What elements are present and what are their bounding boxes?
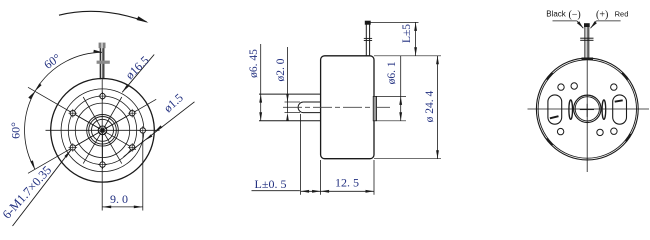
svg-text:Black: Black bbox=[546, 10, 567, 19]
thread callout 6-M1.7x0.35 bbox=[13, 150, 72, 226]
dimension L+-5 bbox=[370, 21, 418, 23]
front view vertical centerline bbox=[101, 48, 103, 211]
front view 6 mounting holes M1.7 bbox=[100, 93, 105, 98]
rear terminal bbox=[584, 27, 586, 58]
dimension L+-0.5 bbox=[300, 114, 302, 195]
front view inner step circle bbox=[75, 103, 129, 157]
rear brush spring arcs bbox=[569, 100, 573, 119]
rear view rim notches bbox=[622, 73, 628, 80]
polarity leader right bbox=[596, 20, 620, 22]
front view shaft circle bbox=[98, 126, 107, 135]
side view body outline bbox=[321, 56, 374, 159]
rear bearing boss bbox=[574, 95, 601, 122]
svg-text:L±0. 5: L±0. 5 bbox=[255, 177, 287, 191]
front view shaft washer bbox=[97, 61, 110, 64]
front view bolt circle bbox=[68, 96, 136, 164]
svg-text:ø2. 0: ø2. 0 bbox=[275, 58, 287, 81]
dimension d6.45 bbox=[260, 44, 262, 121]
svg-text:ø6. 45: ø6. 45 bbox=[248, 49, 260, 78]
front view horizontal centerline bbox=[46, 129, 160, 131]
front view shaft (top) bbox=[99, 48, 101, 79]
dimension d2.0 bbox=[287, 47, 289, 113]
front view boss rings bbox=[87, 115, 119, 147]
side view center axis bbox=[283, 106, 390, 108]
dimension d1.5 leader bbox=[124, 102, 195, 157]
front view circle d16.5 reference bbox=[61, 89, 144, 172]
rear small holes bbox=[558, 84, 564, 90]
side view shaft d2.0 bbox=[303, 101, 320, 103]
side view terminal bbox=[365, 25, 367, 56]
svg-text:9. 0: 9. 0 bbox=[110, 192, 128, 206]
rear view vertical centerline bbox=[586, 27, 588, 172]
svg-text:Red: Red bbox=[615, 9, 629, 18]
dimension d6.1 bbox=[377, 95, 406, 97]
rear view: end cap bbox=[528, 9, 650, 172]
rear vent slot right bbox=[613, 95, 627, 124]
60 degree dimension arcs bbox=[25, 52, 103, 169]
svg-text:12. 5: 12. 5 bbox=[335, 176, 359, 190]
rear vent slot left bbox=[548, 95, 562, 124]
brush in left slot bbox=[550, 116, 559, 118]
svg-text:L±5: L±5 bbox=[401, 24, 413, 43]
front view hole d1.5 at 9.0 offset bbox=[140, 128, 145, 133]
dimension 12.5 bbox=[373, 160, 375, 195]
front view outer body circle bbox=[51, 79, 155, 183]
dimension d16.5 leader bbox=[122, 55, 154, 93]
polarity leader left bbox=[553, 20, 577, 22]
rear bearing center cross bbox=[580, 109, 594, 111]
rear view horizontal centerline bbox=[528, 108, 650, 110]
svg-text:ø6. 1: ø6. 1 bbox=[386, 61, 398, 84]
front view radial spokes bbox=[103, 99, 157, 130]
front view: motor face bbox=[0, 11, 195, 226]
svg-text:60°: 60° bbox=[9, 122, 23, 139]
svg-text:(+): (+) bbox=[596, 9, 608, 20]
svg-text:(−): (−) bbox=[568, 9, 580, 20]
rotation direction arrow bbox=[59, 11, 147, 21]
rear view outer circles bbox=[536, 58, 638, 160]
dimension d24.4 bbox=[374, 158, 441, 160]
svg-text:ø 24. 4: ø 24. 4 bbox=[424, 90, 436, 122]
side view rear bushing d6.1 bbox=[373, 96, 376, 120]
dimension 9.0 bbox=[142, 134, 144, 211]
side view: motor body bbox=[248, 21, 441, 195]
brush in right slot bbox=[615, 100, 623, 101]
side view front boss d6.45 bbox=[259, 93, 321, 95]
